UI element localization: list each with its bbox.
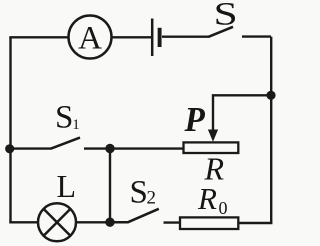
switch S2 blade [110,209,159,222]
battery cell: long plate (+) [151,19,154,57]
wire: middle vertical [109,149,111,223]
wire: bottom left to lamp [9,221,38,223]
svg-text:0: 0 [219,198,228,218]
wire: left dot to switch S1 [10,147,52,149]
ammeter A1 [69,16,112,59]
wire: R0 to bottom right corner [238,222,272,224]
wire: battery to switch S [162,36,209,38]
wiper arrow P [208,130,218,142]
wire: right rail [270,37,272,224]
node: left rail junction dot [5,144,14,153]
svg-text:A: A [78,21,102,57]
lamp L [38,203,76,241]
rheostat R body [184,142,239,153]
node: junction dot middle [105,144,114,153]
svg-text:R: R [197,181,217,216]
wire: S1 to rheostat [84,147,184,149]
svg-text:S: S [55,100,73,136]
battery cell: short plate (-) [158,28,162,47]
svg-text:S: S [130,174,148,210]
resistor R0 body [180,217,238,229]
switch S1 blade [51,138,80,149]
wire: ammeter to battery [112,36,152,38]
svg-text:S: S [214,0,238,32]
switch S blade [209,27,234,37]
node: junction dot lamp row [105,218,114,227]
svg-text:2: 2 [147,188,157,209]
wire: left rail [9,37,11,222]
wire: S2 contact to R0 [164,221,181,223]
svg-text:L: L [57,168,77,204]
wire: junction to wiper arm [213,95,271,131]
wire: top left to ammeter [9,36,68,38]
svg-text:1: 1 [72,117,80,133]
node: junction dot right rail [266,91,275,100]
wire: lamp to middle dot [76,221,110,223]
svg-text:P: P [184,101,206,139]
wire: switch S to top right corner [242,35,271,37]
